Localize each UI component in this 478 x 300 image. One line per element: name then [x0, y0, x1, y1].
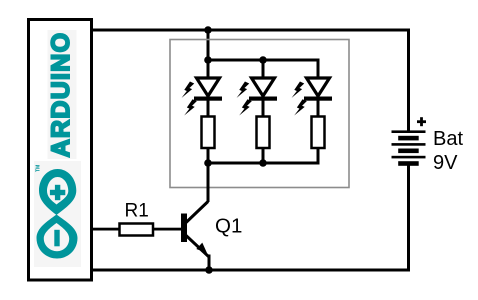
wire: top rail from Arduino to battery + — [91, 29, 410, 32]
label Q1 — [215, 215, 242, 238]
resistor for LED D2 — [257, 117, 270, 164]
wire: LED tap down into LED box — [207, 30, 210, 61]
Arduino logo text ARDUINO — [47, 32, 75, 158]
wire: LED3 column drop from rail — [317, 60, 320, 78]
wire: battery - lead (right side vertical lower) — [407, 164, 410, 272]
wire: LED box top rail — [207, 59, 320, 62]
junction: top rail at LED1 — [204, 56, 212, 64]
LED D3 light bolts — [291, 81, 307, 118]
transistor Q1 — [181, 214, 211, 271]
wire: R1 to Q1 base — [153, 228, 182, 231]
resistor for LED D3 — [312, 117, 325, 164]
resistor R1 — [120, 224, 154, 236]
svg-text:ARDUINO: ARDUINO — [47, 32, 75, 158]
wire: battery + lead (right side vertical upper) — [407, 29, 410, 133]
junction: top rail at LED2 — [259, 56, 267, 64]
junction: LED tap on top rail — [204, 26, 212, 34]
junction: bottom rail at LED2 — [259, 159, 267, 167]
label 9V — [433, 152, 458, 174]
label Bat — [433, 128, 463, 150]
svg-text:R1: R1 — [125, 201, 149, 222]
LED D2 light bolts — [236, 81, 252, 118]
Arduino module outline — [29, 20, 92, 281]
battery Bat — [392, 130, 426, 165]
LED D3 — [304, 78, 332, 117]
svg-text:TM: TM — [36, 165, 42, 172]
Arduino logo TM mark — [36, 165, 42, 172]
LED D2 — [249, 60, 277, 117]
LED group box — [170, 40, 349, 188]
wire: bottom rail from Arduino to battery - — [91, 269, 410, 272]
junction: emitter to bottom rail — [205, 266, 213, 274]
wire: collector lead from bottom rail to Q1 — [186, 163, 210, 223]
LED D1 light bolts — [181, 81, 197, 118]
wire: LED box bottom rail — [207, 162, 320, 165]
label R1 — [125, 201, 149, 222]
Arduino logo infinity symbol — [37, 169, 78, 259]
battery + polarity mark — [417, 117, 426, 126]
svg-text:Q1: Q1 — [215, 215, 242, 238]
svg-text:Bat: Bat — [433, 128, 463, 150]
wire: base wire from Arduino to R1 — [91, 228, 120, 231]
resistor for LED D1 — [202, 117, 215, 164]
svg-text:9V: 9V — [433, 152, 458, 174]
LED D1 — [194, 60, 222, 117]
junction: bottom rail at LED1 — [204, 159, 212, 167]
